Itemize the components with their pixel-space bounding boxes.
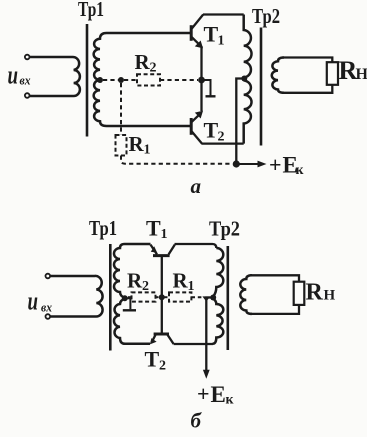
transformer Tp1 core (a) xyxy=(86,24,89,137)
input terminal top (b) xyxy=(46,274,51,279)
label T2 (a) xyxy=(204,118,225,145)
svg-text:R: R xyxy=(127,269,143,293)
label T2 (b) xyxy=(145,347,167,374)
transformer Tp1 secondary lower half + wire to T2 base (a) xyxy=(94,80,191,126)
wire Tp2 center tap to +Ek arrow (b) xyxy=(203,298,212,379)
dashed wire R2 to base node (b) xyxy=(156,296,161,298)
svg-text:Т: Т xyxy=(146,216,161,241)
label Tp1 (a) xyxy=(78,0,104,21)
transformer Tp2 primary upper half (a) xyxy=(244,15,252,78)
label Tp2 (a) xyxy=(252,4,280,28)
svg-text:R: R xyxy=(135,50,151,74)
svg-text:R: R xyxy=(173,269,189,293)
node Tp1 center tap (b) xyxy=(122,295,128,301)
svg-text:к: к xyxy=(226,393,235,408)
transistor T2 (b) xyxy=(150,334,174,344)
input terminal bottom (b) xyxy=(46,314,51,319)
label u_vx (b) xyxy=(28,287,53,316)
dashed wire tap to R2 (b) xyxy=(128,296,132,298)
svg-text:1: 1 xyxy=(188,279,195,294)
svg-text:R: R xyxy=(306,280,324,306)
wire Tp2 center tap to +Ek node (a) xyxy=(236,79,244,162)
wire Tp2 secondary to RH (a) xyxy=(282,58,332,93)
dashed wire R1 to +Ek wire (b) xyxy=(191,296,202,298)
label Tp1 (b) xyxy=(89,216,117,240)
svg-text:Тр1: Тр1 xyxy=(78,0,104,21)
node R1/R2 junction (a) xyxy=(118,77,124,83)
svg-text:а: а xyxy=(191,174,202,198)
label R1 (b) xyxy=(173,269,195,295)
svg-text:2: 2 xyxy=(150,61,157,76)
svg-text:Тр1: Тр1 xyxy=(89,216,117,240)
svg-text:2: 2 xyxy=(218,130,225,145)
node +Ek junction (a) xyxy=(233,160,240,167)
wire common emitters (a) xyxy=(200,46,202,111)
transformer Tp1 secondary upper half + wire to T1 base (a) xyxy=(94,33,191,80)
wire arrow to +Ek (a) xyxy=(240,161,267,168)
junction arrow on +Ek wire (b) xyxy=(202,296,210,301)
svg-text:2: 2 xyxy=(142,279,149,294)
dashed wire R1 to +Ek rail (a) xyxy=(121,156,232,164)
svg-text:б: б xyxy=(191,409,203,433)
svg-text:2: 2 xyxy=(159,359,166,374)
transformer Tp2 core (b) xyxy=(227,246,230,350)
label +Ek (a) xyxy=(269,152,305,178)
transistor T2 (a) xyxy=(191,111,202,143)
svg-text:Тр2: Тр2 xyxy=(209,217,240,241)
ground (b) xyxy=(123,298,136,310)
label u_vx (a) xyxy=(8,61,31,90)
dashed wire node to R2 (a) xyxy=(124,79,137,81)
dashed wire R2 to emitter node (a) xyxy=(160,79,198,81)
svg-text:Н: Н xyxy=(356,66,367,83)
transformer Tp2 secondary winding (b) xyxy=(240,275,252,314)
transformer Tp2 secondary winding (a) xyxy=(272,58,284,93)
transformer Tp2 primary lower half (b) xyxy=(213,299,224,344)
transformer Tp1 core (b) xyxy=(109,244,112,351)
label +Ek (b) xyxy=(197,381,235,408)
node Tp1 center tap (a) xyxy=(97,77,103,83)
svg-text:Тр2: Тр2 xyxy=(252,4,280,28)
svg-text:Е: Е xyxy=(211,382,226,407)
resistor R2 (a) xyxy=(137,74,160,85)
wire T2 collector to Tp2 primary bottom (b) xyxy=(174,343,213,345)
transformer Tp2 primary lower half (a) xyxy=(244,81,252,144)
transformer Tp2 primary upper half (b) xyxy=(213,248,223,296)
label RH (b) xyxy=(306,280,336,306)
svg-text:Н: Н xyxy=(324,288,336,304)
input terminal top (a) xyxy=(25,55,30,60)
svg-text:+: + xyxy=(197,381,210,406)
dashed wire node to R1 (a) xyxy=(120,83,122,135)
resistor RH (b) xyxy=(294,282,305,305)
resistor R2 (b) xyxy=(132,292,156,301)
transformer Tp1 secondary upper half + wire (b) xyxy=(114,244,151,298)
svg-text:+: + xyxy=(269,152,282,177)
svg-text:R: R xyxy=(129,132,145,156)
label R2 (b) xyxy=(127,269,149,295)
input terminal bottom (a) xyxy=(25,93,30,98)
label T1 (b) xyxy=(146,216,168,243)
transistor T1 (a) xyxy=(191,15,203,48)
wire T2 collector to Tp2 primary bottom (a) xyxy=(202,142,244,144)
dashed wire center tap to node (a) xyxy=(103,79,119,81)
transistor T1 (b) xyxy=(151,245,175,256)
transformer Tp2 core (a) xyxy=(260,28,263,146)
label Tp2 (b) xyxy=(209,217,240,241)
label RH (a) xyxy=(339,56,367,85)
svg-text:вх: вх xyxy=(20,73,31,88)
node Tp2 center tap (b) xyxy=(210,295,216,301)
svg-text:Т: Т xyxy=(145,347,160,372)
wire T1 collector to Tp2 primary top (b) xyxy=(175,244,217,248)
node Tp2 center tap (a) xyxy=(241,76,247,82)
wire common bases vertical (b) xyxy=(161,256,163,334)
label R1 (a) xyxy=(129,132,151,157)
label T1 (a) xyxy=(204,22,225,49)
wire Tp2 secondary to RH (b) xyxy=(250,275,299,314)
svg-text:u: u xyxy=(28,287,39,316)
label a (figure a) xyxy=(191,174,202,198)
resistor R1 (a) xyxy=(116,135,127,156)
svg-text:u: u xyxy=(8,61,19,90)
svg-text:1: 1 xyxy=(218,34,225,49)
svg-text:вх: вх xyxy=(41,300,52,315)
node common bases (b) xyxy=(159,294,165,300)
transformer Tp1 primary winding + input wires (b) xyxy=(50,276,102,317)
resistor R1 (b) xyxy=(169,292,191,301)
wire T1 collector to Tp2 primary top (a) xyxy=(203,13,244,15)
label b (figure b) xyxy=(191,409,203,433)
svg-text:Т: Т xyxy=(204,22,219,47)
svg-text:1: 1 xyxy=(144,143,151,158)
transformer Tp1 primary winding + input wires (a) xyxy=(30,57,80,96)
resistor RH (a) xyxy=(327,62,338,85)
dashed wire base node to R1 (b) xyxy=(165,296,170,298)
ground (a) xyxy=(204,80,216,96)
node common emitters (a) xyxy=(198,77,205,84)
transformer Tp1 secondary lower half + wire (b) xyxy=(114,299,150,344)
label R2 (a) xyxy=(135,50,157,76)
svg-text:Т: Т xyxy=(204,118,219,143)
svg-text:к: к xyxy=(296,163,305,178)
svg-text:1: 1 xyxy=(161,227,168,242)
